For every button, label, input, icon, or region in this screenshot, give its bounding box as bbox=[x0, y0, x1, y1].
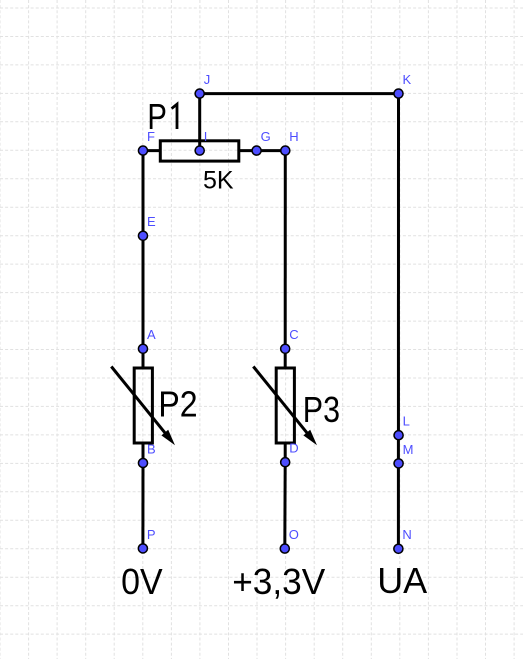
svg-text:A: A bbox=[147, 327, 156, 342]
wire P3 bottom to D bbox=[284, 443, 287, 462]
svg-text:M: M bbox=[403, 442, 414, 457]
svg-text:J: J bbox=[204, 72, 211, 87]
svg-text:B: B bbox=[147, 441, 156, 456]
node B bbox=[138, 441, 155, 467]
wire P2 bottom to B bbox=[142, 443, 145, 463]
svg-text:O: O bbox=[289, 527, 299, 542]
node I bbox=[195, 129, 207, 155]
svg-text:I: I bbox=[204, 129, 208, 144]
wire A to P2 top bbox=[142, 349, 145, 368]
wire C to P3 top bbox=[284, 349, 287, 368]
svg-text:E: E bbox=[147, 214, 156, 229]
potentiometer P2 body bbox=[134, 368, 152, 443]
node D bbox=[281, 441, 299, 467]
svg-text:UA: UA bbox=[377, 560, 427, 601]
svg-text:0V: 0V bbox=[121, 561, 163, 602]
wire H-C (+3,3V branch upper) bbox=[284, 151, 287, 349]
svg-text:D: D bbox=[289, 441, 298, 456]
svg-text:H: H bbox=[289, 129, 298, 144]
node K bbox=[394, 72, 412, 98]
svg-text:G: G bbox=[261, 129, 271, 144]
wire J-K bbox=[200, 92, 399, 95]
P3 adjustment arrow bbox=[253, 367, 311, 439]
node L bbox=[394, 414, 410, 440]
potentiometer P3 body bbox=[276, 368, 294, 443]
node H bbox=[281, 129, 299, 155]
node E bbox=[138, 214, 156, 240]
svg-text:F: F bbox=[147, 129, 155, 144]
svg-text:P: P bbox=[147, 527, 156, 542]
P2 adjustment arrow bbox=[111, 367, 169, 439]
node A bbox=[138, 327, 156, 353]
potentiometer P1 body bbox=[160, 141, 239, 161]
node N bbox=[394, 527, 412, 553]
wire P1 right terminal to G to H bbox=[238, 149, 285, 152]
node G bbox=[252, 129, 271, 155]
wire F-E-A (0V branch upper) bbox=[142, 151, 145, 349]
node F bbox=[138, 129, 155, 155]
svg-text:P2: P2 bbox=[158, 384, 197, 425]
wire F to P1 left terminal bbox=[143, 149, 161, 152]
svg-text:5K: 5K bbox=[203, 167, 234, 195]
node J bbox=[195, 72, 210, 98]
wire J-I (to P1 wiper) bbox=[198, 94, 201, 151]
svg-text:L: L bbox=[403, 414, 410, 429]
svg-text:N: N bbox=[402, 527, 411, 542]
node C bbox=[281, 327, 299, 353]
node O bbox=[280, 527, 299, 553]
svg-text:+3,3V: +3,3V bbox=[232, 561, 325, 602]
wire D-O bbox=[283, 462, 286, 548]
wire K-N (UA branch) bbox=[397, 94, 400, 549]
wire B-P bbox=[141, 463, 144, 548]
svg-text:C: C bbox=[289, 327, 298, 342]
svg-text:P3: P3 bbox=[303, 389, 340, 430]
node M bbox=[394, 442, 413, 468]
svg-text:K: K bbox=[403, 72, 412, 87]
node P bbox=[138, 527, 155, 553]
